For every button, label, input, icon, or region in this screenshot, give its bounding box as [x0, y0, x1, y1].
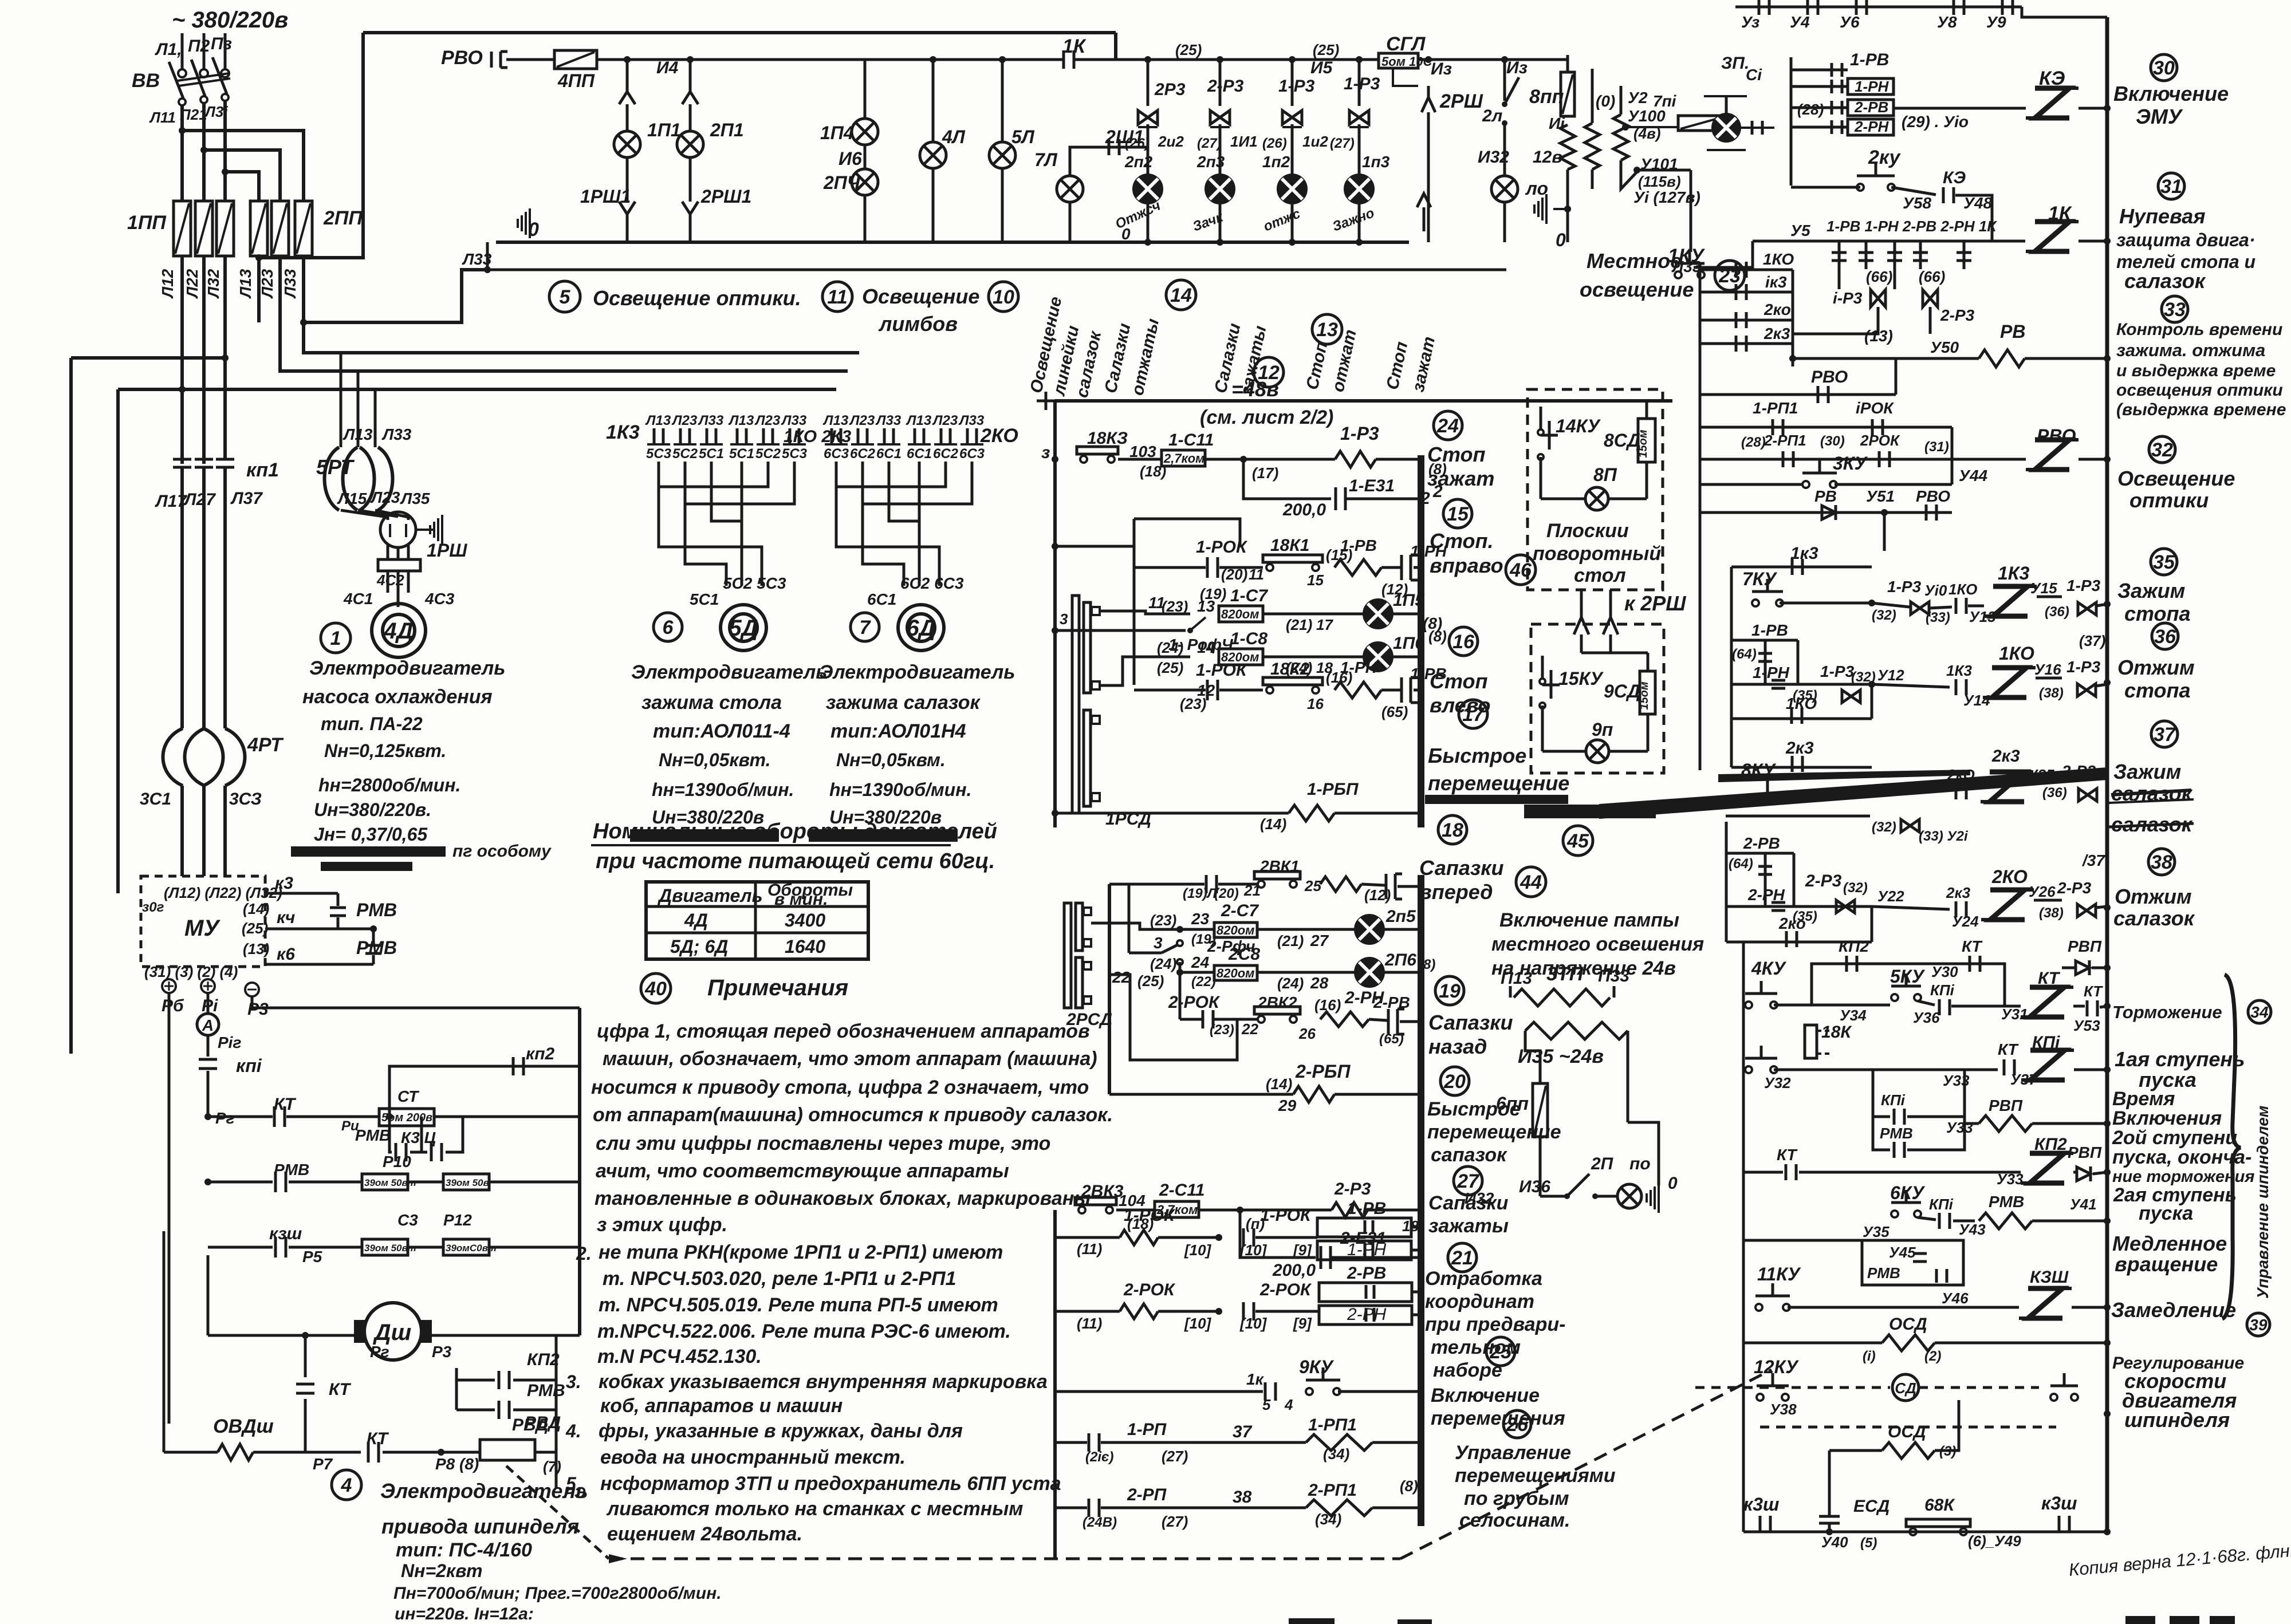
rung bottom — [1743, 1531, 2107, 1534]
svg-text:11КУ: 11КУ — [1757, 1264, 1801, 1284]
minus P3 — [245, 983, 259, 996]
svg-text:(8): (8) — [1400, 1477, 1418, 1495]
svg-text:9п: 9п — [1592, 719, 1613, 740]
cap branch — [1243, 459, 1331, 499]
svg-text:7: 7 — [860, 617, 872, 638]
valve 35b — [2078, 602, 2096, 615]
node L31 — [222, 168, 229, 175]
rung slow2 — [1895, 1240, 2107, 1241]
svg-text:(11): (11) — [1077, 1240, 1102, 1258]
svg-text:оптики: оптики — [2129, 488, 2209, 512]
svg-text:(65): (65) — [1379, 1031, 1404, 1047]
wire rung C end — [1381, 971, 1419, 974]
svg-text:Nн=0,05квт.: Nн=0,05квт. — [659, 750, 770, 770]
cap 1-RV r3 — [1400, 677, 1403, 703]
contact 1-ROK r3 — [1206, 680, 1209, 700]
svg-text:Л13: Л13 — [343, 425, 373, 443]
svg-text:КПі: КПі — [1929, 1196, 1954, 1213]
svg-text:Зажим: Зажим — [2113, 760, 2181, 783]
sec resistor [0] — [1591, 69, 1594, 123]
circled 24 — [1434, 411, 1462, 440]
svg-text:вращение: вращение — [2115, 1252, 2218, 1276]
svg-text:5Д: 5Д — [729, 616, 758, 641]
svg-text:Торможение: Торможение — [2112, 1002, 2222, 1022]
svg-text:Ріг: Ріг — [218, 1034, 241, 1051]
svg-text:(36): (36) — [2042, 785, 2067, 801]
wire r1 b — [1205, 458, 1335, 461]
wire between boxes — [408, 1181, 443, 1184]
box C3a — [362, 1239, 408, 1255]
wire col1 — [626, 104, 629, 131]
svg-text:Л17: Л17 — [155, 492, 187, 511]
svg-text:2РОК: 2РОК — [1860, 432, 1900, 449]
lamp 2P2 — [1133, 175, 1162, 203]
contact U38 right — [2050, 1394, 2057, 1401]
wire L1 down to fuse — [180, 105, 184, 201]
circled 19 — [1435, 976, 1464, 1005]
bracket 18K3 — [1077, 447, 1118, 454]
svg-text:(33) У2і: (33) У2і — [1919, 829, 1969, 844]
wire bus to 8PP — [1566, 55, 1569, 72]
circled 16 — [1449, 627, 1478, 656]
svg-text:Л35: Л35 — [400, 490, 430, 507]
node P2 — [204, 1113, 211, 1120]
svg-text:Nн=0,05квм.: Nн=0,05квм. — [836, 750, 946, 770]
coil KP1 — [2030, 1050, 2065, 1080]
box RVD — [480, 1440, 535, 1460]
svg-text:П33: П33 — [1598, 967, 1629, 986]
svg-text:14: 14 — [1170, 285, 1192, 306]
phase wire L3 — [224, 33, 227, 69]
big smudge — [1599, 767, 2107, 819]
svg-text:РМВ: РМВ — [356, 937, 397, 958]
rung D wire — [1180, 1018, 1202, 1021]
svg-text:35: 35 — [2153, 551, 2175, 573]
wire RV rail — [2025, 357, 2107, 360]
node rung2 — [1052, 543, 1058, 550]
circled 39 — [2247, 1313, 2270, 1336]
dashed box 2 — [1531, 624, 1664, 773]
svg-text:(34): (34) — [1315, 1511, 1341, 1528]
svg-text:(29) . Уіо: (29) . Уіо — [1902, 113, 1969, 131]
svg-text:2-РОК: 2-РОК — [1123, 1280, 1176, 1299]
svg-text:(26): (26) — [1262, 136, 1287, 151]
box 1-RV — [1317, 1218, 1411, 1237]
node U51 — [1881, 509, 1888, 516]
svg-text:hн=1390об/мин.: hн=1390об/мин. — [652, 779, 794, 800]
svg-text:т. NРСЧ.503.020, реле 1-РП: т. NРСЧ.503.020, реле 1-РП1 и 2-РП1 — [603, 1268, 956, 1290]
svg-text:~ 380/220в: ~ 380/220в — [172, 7, 288, 33]
svg-text:(17): (17) — [1252, 464, 1278, 482]
wire 35c — [2037, 596, 2062, 598]
svg-text:П2: П2 — [188, 37, 210, 56]
svg-text:5С1: 5С1 — [729, 446, 754, 462]
svg-text:103: 103 — [1129, 443, 1156, 460]
svg-text:по: по — [1629, 1154, 1651, 1173]
wire r2 — [1134, 566, 1206, 569]
svg-text:сапазок: сапазок — [1431, 1144, 1507, 1166]
svg-text:вправо: вправо — [1430, 554, 1503, 577]
svg-text:У58: У58 — [1903, 194, 1932, 212]
svg-text:У6: У6 — [1840, 13, 1860, 31]
svg-text:1-Р3: 1-Р3 — [1820, 663, 1855, 680]
cap branch b — [1345, 498, 1419, 500]
wire res down — [1566, 170, 1569, 242]
lamp ZP — [1713, 114, 1740, 141]
coil KE — [2035, 88, 2069, 118]
svg-text:1п2: 1п2 — [1262, 153, 1290, 171]
resistor 1-R3 — [1335, 451, 1376, 467]
svg-text:(см. лист 2/2): (см. лист 2/2) — [1200, 407, 1333, 428]
rung35 right bits — [1872, 603, 1910, 607]
box 1-C7 — [1219, 606, 1263, 622]
Dsh brushes — [354, 1320, 365, 1343]
svg-text:5С1: 5С1 — [699, 446, 724, 462]
svg-text:У43: У43 — [1959, 1221, 1986, 1238]
svg-text:(25): (25) — [1313, 41, 1339, 58]
wire 1KU to rail — [1672, 267, 1672, 268]
button 5KU — [1891, 994, 1898, 1001]
lamp 5L — [989, 142, 1015, 168]
svg-text:1-С8: 1-С8 — [1230, 629, 1267, 648]
bypass 2KO — [1726, 941, 1872, 944]
svg-text:29: 29 — [1278, 1097, 1297, 1114]
svg-text:Nн=0,125квт.: Nн=0,125квт. — [324, 740, 446, 761]
wire r1 a — [1118, 458, 1162, 461]
vert C to D — [1179, 972, 1182, 1019]
svg-text:Плоскии: Плоскии — [1546, 520, 1629, 542]
svg-text:(0): (0) — [1596, 92, 1615, 110]
rvo stub — [1700, 393, 1896, 396]
svg-text:Пн=700об/мин; Прег.=700г2800об: Пн=700об/мин; Прег.=700г2800об/мин. — [393, 1584, 722, 1603]
svg-text:РМВ: РМВ — [274, 1161, 309, 1178]
svg-text:(24): (24) — [1157, 639, 1183, 656]
box 2-RN — [1319, 1306, 1412, 1325]
node U100 — [1622, 124, 1629, 131]
zero bus — [496, 241, 1409, 244]
wire F end — [1368, 1209, 1419, 1212]
svg-text:1-Р3: 1-Р3 — [1278, 77, 1315, 96]
svg-text:привода шпинделя: привода шпинделя — [381, 1515, 579, 1538]
svg-text:27: 27 — [1310, 932, 1329, 949]
svg-text:КТ: КТ — [1998, 1040, 2020, 1058]
svg-text:У44: У44 — [1959, 467, 1988, 484]
node col 2P2 — [1144, 56, 1151, 63]
svg-text:не типа РКН(кроме 1РП1 и 2-РП1: не типа РКН(кроме 1РП1 и 2-РП1) имеют — [599, 1241, 1003, 1263]
svg-text:1к3: 1к3 — [1790, 544, 1818, 563]
svg-text:РВП: РВП — [2068, 937, 2102, 955]
svg-text:зажима. отжима: зажима. отжима — [2116, 340, 2265, 360]
svg-text:Электродвигатель: Электродвигатель — [309, 657, 505, 679]
bracket 2VK1 — [1254, 872, 1300, 879]
svg-text:6: 6 — [663, 617, 674, 638]
wire col5 — [1001, 60, 1004, 142]
svg-text:местного освешения: местного освешения — [1491, 933, 1704, 955]
wire L37 down — [223, 358, 227, 458]
3TP stub wires — [1509, 986, 1512, 998]
svg-text:У50: У50 — [1930, 338, 1959, 356]
wire selsyn rail — [1055, 629, 1186, 632]
button 2KU — [1857, 184, 1864, 191]
node lamp col 1 — [624, 56, 631, 63]
svg-text:Уз: Уз — [1741, 13, 1759, 31]
svg-text:1-РВ: 1-РВ — [1751, 621, 1788, 639]
svg-text:У41: У41 — [2070, 1196, 2097, 1213]
svg-text:Отжим: Отжим — [2117, 656, 2195, 679]
rung 2VK1 — [1109, 883, 1204, 886]
svg-text:(23): (23) — [1210, 1022, 1234, 1038]
wire col4 — [932, 60, 935, 142]
svg-text:фры, указанные в кружках, даны: фры, указанные в кружках, даны для — [599, 1420, 963, 1442]
row RV U51 RVO — [1700, 511, 1952, 514]
svg-text:СТ: СТ — [397, 1087, 420, 1105]
wire P6 rail — [168, 993, 171, 1424]
phase wire L2 — [203, 33, 206, 69]
svg-text:РВО: РВО — [441, 47, 483, 69]
drop 1-RV — [1838, 241, 1841, 289]
contact 1-ROK r2 — [1206, 557, 1209, 578]
svg-text:тип:АОЛ011-4: тип:АОЛ011-4 — [653, 720, 790, 742]
wire KP1 down — [207, 1071, 210, 1117]
dashed diagonal from P3 — [506, 1466, 609, 1559]
contact RMV k6 — [372, 929, 375, 944]
svg-text:(25): (25) — [1157, 659, 1183, 676]
svg-text:9СД: 9СД — [1604, 681, 1640, 701]
svg-text:15КУ: 15КУ — [1558, 668, 1604, 689]
bottom bus mid — [253, 1451, 361, 1454]
selsyn taps — [1100, 611, 1190, 614]
svg-text:25: 25 — [1489, 1341, 1512, 1363]
svg-text:2л: 2л — [1482, 107, 1503, 125]
svg-text:зажаты: зажаты — [1428, 1215, 1509, 1237]
svg-text:Л15: Л15 — [337, 490, 367, 507]
motor5 smudge — [630, 829, 779, 842]
node L11 — [179, 127, 186, 134]
ammeter A — [197, 1014, 219, 1035]
svg-text:(64): (64) — [1732, 647, 1757, 662]
wire L33 feed right — [487, 269, 1506, 271]
svg-text:2-Р3: 2-Р3 — [1805, 872, 1842, 890]
svg-text:2к3: 2к3 — [1785, 739, 1814, 758]
svg-text:(7): (7) — [543, 1458, 561, 1475]
svg-text:к3ш: к3ш — [2041, 1493, 2077, 1513]
button 1KU wire — [1694, 241, 1753, 267]
svg-text:1-РВ: 1-РВ — [1347, 1199, 1386, 1218]
svg-text:5С2: 5С2 — [672, 446, 698, 462]
wire RVO to fuse 4PP — [506, 58, 554, 61]
left rail stop net — [1053, 401, 1057, 827]
svg-text:13: 13 — [1316, 319, 1338, 341]
valve 1-R3 col4 — [1349, 111, 1369, 124]
ground at 0 bus — [529, 208, 531, 238]
svg-text:Время: Время — [2112, 1088, 2175, 1110]
box 1-C11 — [1162, 450, 1205, 466]
svg-text:пг особому: пг особому — [452, 842, 552, 861]
node r1 — [1240, 456, 1247, 463]
contact RMV k3 — [337, 893, 340, 906]
lamp LO — [1491, 176, 1518, 202]
svg-text:18КЗ: 18КЗ — [1087, 429, 1128, 448]
svg-text:2П1: 2П1 — [710, 120, 744, 140]
svg-text:РВП: РВП — [2068, 1144, 2102, 1161]
node P8 — [438, 1449, 444, 1456]
wire L27 down — [202, 371, 206, 458]
wire KE aux corner — [1955, 195, 1992, 241]
svg-text:1-Р3: 1-Р3 — [2066, 577, 2101, 594]
svg-text:(14): (14) — [1266, 1075, 1292, 1093]
svg-text:2-РБП: 2-РБП — [1295, 1061, 1351, 1082]
svg-text:Л23: Л23 — [258, 269, 276, 299]
resistor 12v — [1560, 125, 1575, 170]
coil KP2 — [2030, 1153, 2064, 1183]
wire r1 c — [1376, 458, 1419, 461]
svg-text:Рб: Рб — [162, 996, 184, 1015]
box 1-RV left — [1731, 639, 1798, 642]
svg-text:Л23: Л23 — [932, 413, 958, 428]
valve 1-R3 col3 — [1282, 111, 1302, 124]
svg-text:Дш: Дш — [373, 1320, 411, 1345]
wire col3 — [864, 60, 867, 117]
svg-text:15: 15 — [1307, 571, 1324, 589]
svg-text:от аппарат(машина) относится к: от аппарат(машина) относится к приводу с… — [593, 1104, 1113, 1126]
svg-text:РМВ: РМВ — [356, 900, 397, 920]
node rung B — [1176, 926, 1183, 933]
plug arrow down col1 — [619, 202, 635, 214]
wire 36b — [2036, 677, 2062, 680]
svg-text:стол: стол — [1574, 565, 1626, 586]
svg-text:18К: 18К — [1821, 1023, 1852, 1042]
fuse 1PP-2 — [195, 201, 212, 256]
wire R10b right — [489, 1181, 580, 1184]
wire col2 to 0bus — [689, 214, 692, 242]
wire lamp2 end — [1389, 656, 1419, 659]
circled 21 — [1448, 1243, 1477, 1272]
circled 6 — [654, 613, 682, 641]
lamp 1P5 — [1364, 600, 1392, 628]
svg-text:18К1: 18К1 — [1270, 536, 1310, 555]
bank1 wiring — [659, 462, 768, 487]
wire 7PP right — [1724, 122, 1735, 124]
svg-text:Л23: Л23 — [671, 413, 698, 428]
wire CT right — [434, 1115, 580, 1118]
circled 34 — [2248, 1000, 2271, 1023]
svg-text:Включение: Включение — [2113, 82, 2229, 105]
wire H boxes — [1255, 1310, 1319, 1313]
node col 2P3 — [1217, 56, 1223, 63]
wire 38b — [2034, 899, 2062, 902]
res 2-RN — [1320, 1012, 1369, 1027]
table box — [646, 882, 868, 959]
stub below SGL — [1393, 68, 1418, 86]
rung 2step — [1743, 1171, 1783, 1174]
top contact row line — [1735, 6, 2022, 9]
wire KE rail — [2079, 107, 2107, 110]
svg-text:при предвари-: при предвари- — [1425, 1314, 1566, 1335]
svg-text:У46: У46 — [1942, 1290, 1969, 1307]
svg-text:тановленные в одинаковых блока: тановленные в одинаковых блоках, маркиро… — [595, 1188, 1091, 1209]
svg-text:5: 5 — [1262, 1396, 1271, 1413]
svg-text:РМВ: РМВ — [527, 1381, 565, 1400]
contact KE aux — [1942, 187, 1945, 203]
wire RVO rail — [2079, 458, 2107, 461]
svg-text:hн=2800об/мин.: hн=2800об/мин. — [318, 775, 460, 795]
valve 36b — [2077, 684, 2096, 696]
svg-text:вперед: вперед — [1419, 880, 1493, 904]
wire 38 rail — [2096, 906, 2107, 908]
svg-text:машин, обозначает, что этот ап: машин, обозначает, что этот аппарат (маш… — [603, 1048, 1097, 1070]
svg-text:2КО: 2КО — [980, 425, 1018, 447]
bus 48v plus — [1037, 400, 1055, 403]
cluster row3 line — [1791, 107, 1848, 109]
contact KP1 slow — [1938, 1213, 1941, 1229]
svg-text:КТ: КТ — [1777, 1146, 1798, 1164]
svg-text:С3: С3 — [397, 1211, 418, 1229]
svg-text:Л23: Л23 — [370, 488, 400, 506]
svg-text:сли эти цифры поставлены через: сли эти цифры поставлены через тире, это — [596, 1133, 1050, 1154]
plug arrow mid bus — [1417, 194, 1431, 207]
contact 1KO 35 — [1929, 607, 1952, 608]
button pair 1st — [1745, 1066, 1752, 1073]
svg-text:2-Р3: 2-Р3 — [2057, 879, 2092, 897]
svg-text:з0г: з0г — [142, 900, 164, 915]
svg-text:2П6: 2П6 — [1384, 951, 1416, 969]
torm upper branch — [1812, 964, 2005, 1005]
svg-text:Отработка: Отработка — [1425, 1268, 1542, 1290]
svg-text:6С2 6С3: 6С2 6С3 — [900, 574, 964, 592]
svg-text:Пз: Пз — [211, 34, 232, 53]
contact 1K3 36 — [1955, 679, 1958, 695]
circled 26 — [1503, 1410, 1531, 1438]
svg-text:РМВ: РМВ — [1989, 1193, 2024, 1211]
wire 36 rail — [2096, 684, 2107, 686]
motor 5D — [721, 605, 766, 651]
svg-text:кпі: кпі — [236, 1055, 262, 1076]
circled 12 — [1254, 357, 1284, 387]
svg-text:(24): (24) — [1150, 955, 1176, 972]
lamp 1P2 — [1278, 175, 1306, 203]
button 1KU — [1675, 271, 1682, 278]
lamp 9P — [1586, 740, 1609, 763]
svg-text:=48в: =48в — [1231, 377, 1279, 401]
circled 37 — [2151, 721, 2178, 747]
svg-text:39омС0вт: 39омС0вт — [446, 1243, 497, 1254]
svg-text:РМВ: РМВ — [355, 1126, 391, 1144]
distribution wire y680 — [118, 388, 836, 391]
wire col1 to 0bus — [626, 214, 629, 242]
wire I3 rail — [1076, 58, 1379, 61]
socket circle — [380, 512, 416, 547]
box 2-C11 — [1155, 1201, 1199, 1217]
rung OSD2 — [1829, 1449, 1882, 1452]
branch 2P3 wire — [1219, 60, 1222, 106]
svg-text:СГЛ: СГЛ — [1386, 33, 1426, 55]
cap 1-E31 — [1335, 487, 1337, 510]
svg-text:Местное: Местное — [1587, 249, 1682, 273]
motor wire right — [432, 1334, 580, 1337]
wire RVD right — [535, 1451, 556, 1454]
valve 2R3 — [1138, 111, 1158, 124]
svg-text:[10]: [10] — [1239, 1315, 1267, 1332]
bus 48v — [1055, 399, 1672, 403]
3TP primary — [1514, 989, 1610, 1006]
svg-text:координат: координат — [1425, 1291, 1534, 1312]
wire torm c — [1951, 1005, 2021, 1008]
wire G boxes — [1255, 1236, 1317, 1239]
svg-text:Освещение: Освещение — [2117, 467, 2235, 490]
node L33 — [484, 266, 491, 273]
svg-text:И36: И36 — [1519, 1177, 1550, 1196]
ground mid — [1545, 194, 1548, 224]
